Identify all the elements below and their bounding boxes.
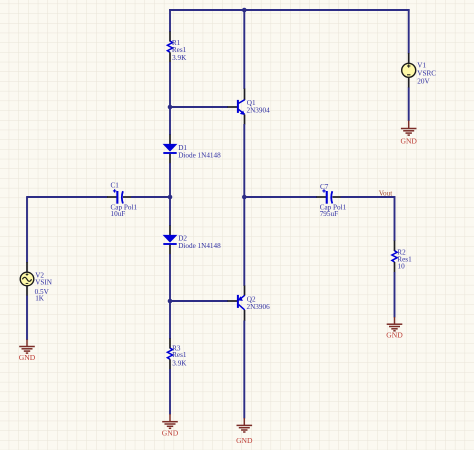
pin C7 negative pin xyxy=(332,196,341,198)
resistor R1 xyxy=(167,41,172,52)
wire input right of C1 xyxy=(131,196,170,198)
pin R1 pin2 xyxy=(169,52,171,62)
svg-text:GND: GND xyxy=(236,436,253,445)
wire V2 vertical xyxy=(26,196,28,262)
svg-text:1K: 1K xyxy=(35,295,45,303)
pin R3 pin1 xyxy=(169,339,171,349)
svg-text:GND: GND xyxy=(400,137,417,146)
wire middle rail upper (Q1 collector) xyxy=(243,10,245,89)
ground GND left rail xyxy=(162,414,179,437)
svg-text:Res1: Res1 xyxy=(172,351,187,359)
svg-text:20V: 20V xyxy=(417,78,430,86)
wire output to Vout corner xyxy=(341,197,395,241)
svg-text:3.9K: 3.9K xyxy=(172,54,187,62)
svg-text:VSRC: VSRC xyxy=(417,70,436,78)
ground GND R2 xyxy=(386,317,403,339)
source V1 VSRC xyxy=(402,63,416,77)
junction node Q1 base branch xyxy=(168,105,173,110)
diode D1 xyxy=(163,144,178,153)
pin C1 negative pin xyxy=(123,196,132,198)
svg-text:2N3904: 2N3904 xyxy=(247,107,271,115)
svg-text:10uF: 10uF xyxy=(111,210,126,218)
svg-text:GND: GND xyxy=(162,428,179,437)
transistor Q1 2N3904 xyxy=(237,100,245,115)
pin Q1 emitter pin xyxy=(244,115,246,125)
pin R3 pin2 xyxy=(169,359,171,369)
source V2 VSIN xyxy=(20,272,34,286)
svg-text:Vout: Vout xyxy=(379,189,392,197)
wire V1 to ground xyxy=(408,88,410,122)
pin Q1 collector pin xyxy=(244,89,246,101)
svg-text:10: 10 xyxy=(398,263,406,271)
resistor R3 xyxy=(167,348,172,359)
svg-text:C1: C1 xyxy=(111,182,120,190)
diode D2 xyxy=(163,235,178,244)
svg-text:Diode 1N4148: Diode 1N4148 xyxy=(178,152,221,160)
pin V1 minus pin xyxy=(408,77,410,88)
svg-text:Diode 1N4148: Diode 1N4148 xyxy=(178,242,221,250)
pin Q2 base pin xyxy=(228,300,238,302)
wire Q1 base horizontal xyxy=(170,106,228,108)
wire Q2 base horizontal xyxy=(170,300,228,302)
junction node output xyxy=(242,195,247,200)
capacitor C1 xyxy=(113,189,123,204)
svg-text:795uF: 795uF xyxy=(320,210,338,218)
pin R2 pin1 xyxy=(394,241,396,252)
pin D1 anode pin xyxy=(169,135,171,145)
junction node input coupling xyxy=(168,195,173,200)
pin V2 minus pin xyxy=(26,286,28,296)
wire middle rail bottom (Q2 collector) xyxy=(243,321,245,419)
ground GND V2 xyxy=(19,340,36,362)
pin R1 pin1 xyxy=(169,32,171,42)
wire R2 to ground xyxy=(394,272,396,318)
svg-text:3.9K: 3.9K xyxy=(172,359,187,367)
pin C7 positive pin xyxy=(317,196,327,198)
wire middle rail center (emitter node) xyxy=(243,124,245,286)
svg-text:VSIN: VSIN xyxy=(35,279,53,287)
pin C1 positive pin xyxy=(107,196,117,198)
wire left rail between D2 and R3 xyxy=(169,254,171,339)
wire V1 vertical from top rail xyxy=(408,9,410,53)
wire top rail xyxy=(169,9,410,11)
svg-text:GND: GND xyxy=(19,353,36,362)
wire left rail between R1 and D1 xyxy=(169,62,171,135)
transistor Q2 2N3906 xyxy=(237,295,245,310)
junction at top rail and Q1 collector branch xyxy=(242,8,247,13)
pin V1 plus pin xyxy=(408,53,410,64)
junction node Q2 base branch xyxy=(168,299,173,304)
svg-text:GND: GND xyxy=(386,330,403,339)
svg-text:V1: V1 xyxy=(417,62,426,70)
wire left rail between D1 and D2 xyxy=(169,163,171,226)
pin R2 pin2 xyxy=(394,262,396,273)
wire left rail upper segment xyxy=(169,9,171,32)
svg-text:2N3906: 2N3906 xyxy=(247,303,271,311)
pin Q1 base pin xyxy=(228,106,238,108)
ground GND V1 xyxy=(400,121,417,146)
resistor R2 xyxy=(392,251,397,262)
wire output horizontal from emitter node xyxy=(244,196,317,198)
pin D1 cathode pin xyxy=(169,154,171,164)
wire V2 to ground xyxy=(26,296,28,341)
wire left rail bottom segment xyxy=(169,369,171,415)
capacitor C7 xyxy=(322,189,332,204)
pin Q2 emitter pin xyxy=(244,286,246,296)
svg-text:Res1: Res1 xyxy=(172,46,187,54)
pin Q2 collector pin xyxy=(244,310,246,321)
pin D2 cathode pin xyxy=(169,245,171,255)
wire input left horizontal from V2 xyxy=(27,196,108,198)
svg-text:C7: C7 xyxy=(320,183,329,191)
pin V2 plus pin xyxy=(26,262,28,273)
pin D2 anode pin xyxy=(169,226,171,236)
ground GND middle rail xyxy=(236,418,253,445)
